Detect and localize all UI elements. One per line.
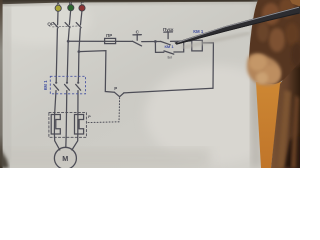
svg-text:Р: Р [88, 114, 91, 119]
wire coil to right rail [202, 43, 213, 89]
start button Pusk actuator [164, 31, 173, 33]
wire phase A vertical [57, 11, 59, 24]
thermal contact P notch [114, 92, 124, 97]
wire stop button to start junction [142, 41, 161, 43]
breaker QF blade pole 3 [76, 23, 81, 28]
contactor KM1 main blade 1 [54, 84, 59, 90]
control top rail wire [68, 40, 132, 42]
paper right edge shadow [251, 0, 264, 168]
pen highlight edge [178, 7, 300, 42]
breaker QF linkage dashed [53, 26, 82, 27]
photo top dark edge [0, 0, 300, 4]
lamp HL1 phase A [55, 5, 61, 11]
wire phase C vertical [81, 11, 82, 25]
contactor KM1 main blade 2 [65, 84, 70, 90]
contactor KM1 dashed box blue [50, 76, 85, 94]
hand knuckles mass [249, 0, 300, 84]
wire thermal contact to phase C tap [79, 51, 114, 93]
aux branch wire up [174, 41, 184, 52]
start button Pusk contact bridge [161, 41, 171, 44]
stop button C contact bridge [133, 41, 142, 46]
forearm dark [271, 55, 300, 168]
pen stylus body [175, 6, 301, 44]
wire start button to coil [171, 40, 192, 42]
svg-text:QF: QF [47, 21, 54, 26]
thermal heater element left [51, 115, 60, 135]
aux contact branch wire down [155, 42, 164, 53]
fingertips light [247, 53, 281, 85]
dotted mechanical link thermal [87, 98, 120, 123]
lamp HL3 phase C [79, 5, 85, 11]
svg-text:Бл: Бл [168, 54, 173, 59]
control bottom rail wire [124, 88, 213, 93]
photo left dark edge [0, 0, 3, 168]
svg-text:С: С [81, 1, 84, 6]
svg-text:Р: Р [114, 86, 117, 91]
contactor KM1 main blade 3 [76, 84, 81, 90]
svg-text:М: М [62, 154, 68, 163]
stop button C actuator [133, 34, 141, 36]
fuse PR body [105, 38, 116, 43]
junction dot phase C tap [78, 50, 81, 53]
door orange strip [256, 82, 281, 168]
wire phase B vertical [69, 11, 70, 25]
svg-text:В: В [69, 1, 72, 6]
svg-text:А: А [57, 1, 60, 6]
bottom-left corner shadow [0, 148, 9, 168]
coil KM1 body [192, 40, 203, 51]
motor M circle [54, 147, 76, 169]
lamp HL2 phase B [68, 5, 74, 11]
thermal relay dashed box [49, 112, 87, 137]
svg-text:Пуск: Пуск [163, 27, 174, 32]
thermal heater element right [75, 115, 84, 135]
contactor terminal dot 1 [55, 82, 57, 84]
pen shadow on paper [182, 33, 250, 48]
contactor terminal dot 2 [66, 82, 68, 84]
junction dot phase B tap [67, 40, 70, 43]
svg-text:КМ 1: КМ 1 [164, 44, 174, 49]
contactor terminal dot 3 [77, 82, 79, 84]
paper sheet background [0, 0, 300, 168]
aux contact KM1 bridge [164, 51, 174, 54]
svg-text:ПР: ПР [106, 33, 112, 38]
top-right door sliver [290, 0, 300, 7]
breaker QF blade pole 1 [53, 23, 58, 28]
pen dark lower edge [177, 13, 300, 44]
breaker QF blade pole 2 [65, 23, 70, 28]
svg-text:КМ 1: КМ 1 [193, 29, 204, 34]
svg-text:КМ 1: КМ 1 [43, 80, 48, 90]
junction dot start button [154, 40, 157, 43]
